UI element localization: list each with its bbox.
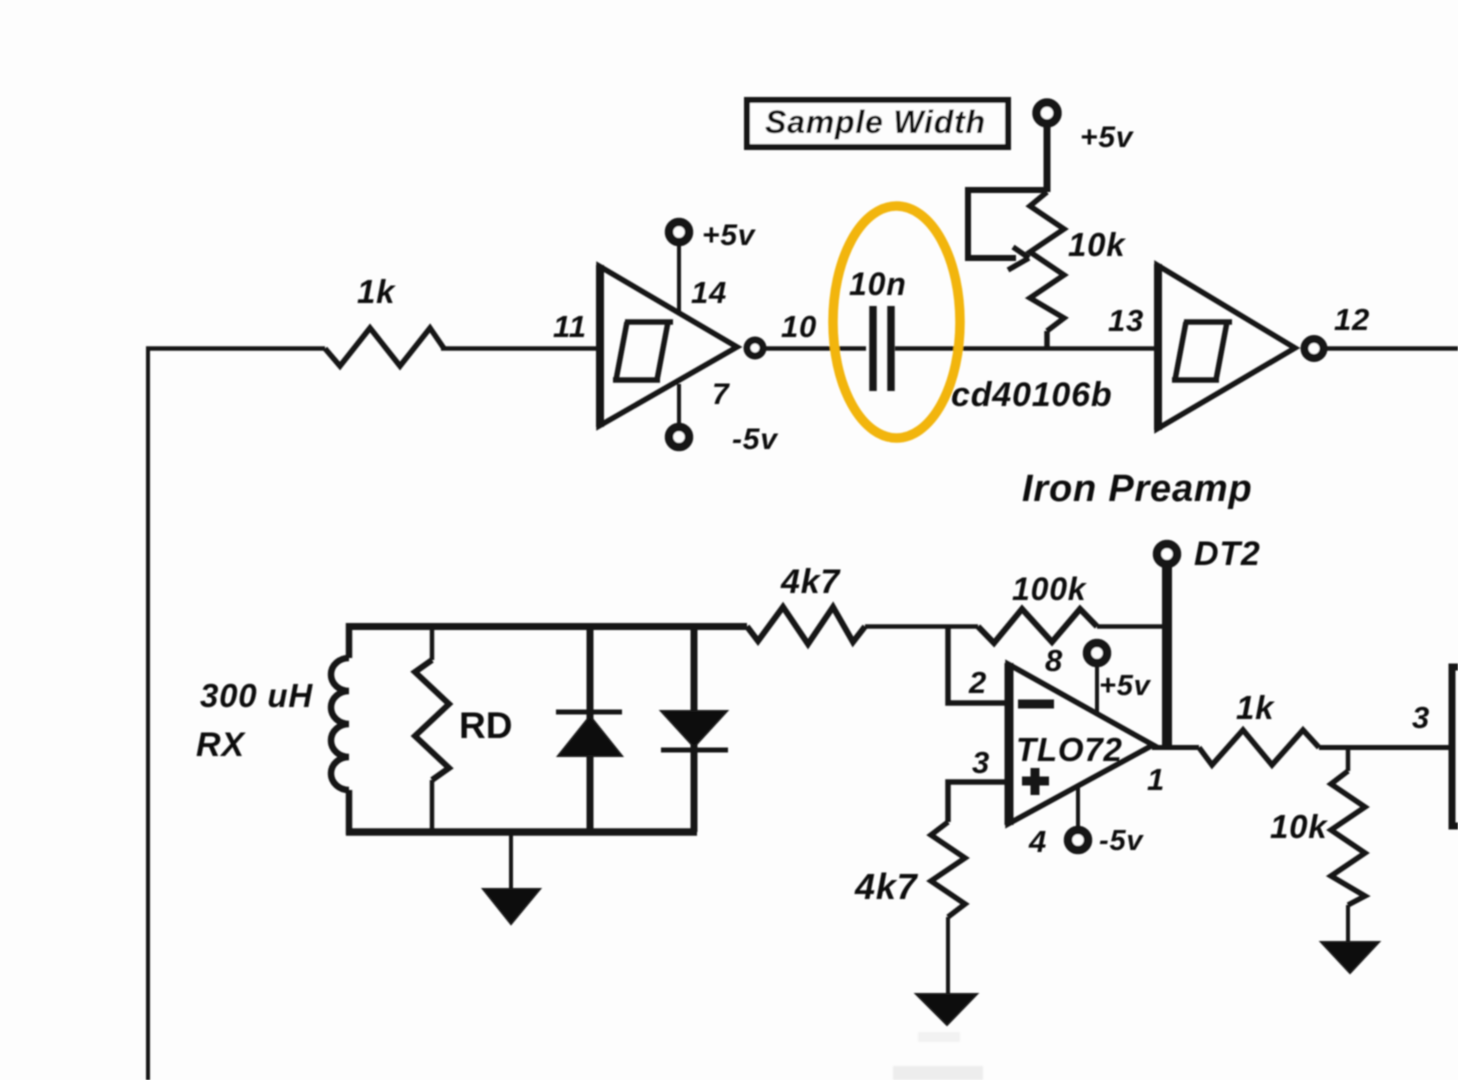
svg-text:14: 14	[691, 275, 727, 310]
svg-text:4: 4	[1028, 824, 1047, 859]
svg-text:TLO72: TLO72	[1016, 731, 1123, 768]
inductor 300uH RX coil	[331, 623, 349, 835]
capacitor 10n	[873, 306, 891, 391]
svg-text:2: 2	[968, 665, 987, 700]
svg-text:10k: 10k	[1270, 808, 1328, 845]
ground (10k)	[1321, 942, 1379, 973]
ground (4k7)	[916, 994, 977, 1025]
coil box bottom rail	[346, 828, 697, 836]
potentiometer 10k	[1030, 127, 1064, 350]
ground (coil box)	[483, 833, 540, 924]
highlight ellipse (yellow)	[833, 206, 960, 438]
wire DT2 bar vertical	[1162, 567, 1172, 748]
faint cut-off text remnant (bottom)	[893, 1032, 983, 1080]
svg-text:Iron Preamp: Iron Preamp	[1022, 468, 1253, 510]
hysteresis glyph U1a	[613, 322, 673, 380]
wire 100k to DT2 bar	[1097, 624, 1165, 629]
pin 4 -5v terminal	[1068, 786, 1088, 850]
svg-text:RX: RX	[196, 726, 246, 764]
DT2 terminal	[1157, 544, 1177, 564]
right edge box partial	[1452, 667, 1458, 826]
svg-text:1: 1	[1147, 762, 1165, 797]
Sample Width box	[747, 100, 1008, 147]
wire U1a output to capacitor	[764, 346, 866, 351]
wire 1k to right box	[1319, 745, 1452, 750]
wire U1b output to right edge	[1324, 346, 1458, 351]
resistor 10k (to ground)	[1331, 748, 1365, 944]
svg-text:+5v: +5v	[1080, 121, 1135, 154]
schmitt inverter U1a (cd40106b)	[599, 265, 737, 427]
wire top-left horizontal to R 1k	[146, 346, 325, 351]
svg-text:3: 3	[1412, 700, 1430, 735]
svg-text:1k: 1k	[357, 273, 396, 310]
resistor 100k feedback	[978, 609, 1097, 643]
plus input mark	[1022, 768, 1049, 795]
diode D1 (pointing up)	[556, 626, 622, 832]
svg-text:8: 8	[1045, 643, 1063, 678]
wire 4k7 to node and 100k	[865, 624, 978, 629]
svg-text:1k: 1k	[1236, 689, 1275, 726]
svg-text:10k: 10k	[1068, 226, 1126, 263]
svg-text:4k7: 4k7	[854, 866, 919, 907]
resistor 4k7 (vertical)	[931, 822, 965, 995]
svg-text:cd40106b: cd40106b	[951, 376, 1112, 414]
output bubble U1b	[1305, 339, 1324, 358]
svg-text:-5v: -5v	[1099, 825, 1144, 857]
pin 14 +5v terminal	[669, 222, 689, 312]
svg-text:100k: 100k	[1012, 571, 1088, 607]
svg-text:+5v: +5v	[702, 219, 757, 252]
wire pin3 to 4k7 vertical	[948, 782, 1009, 822]
svg-text:+5v: +5v	[1099, 670, 1152, 702]
+5v terminal (pot top)	[1037, 103, 1058, 124]
pin 8 +5v terminal	[1087, 643, 1107, 712]
resistor 1k (top)	[325, 328, 444, 366]
wire left vertical bus	[146, 349, 150, 1080]
svg-text:11: 11	[553, 309, 587, 344]
svg-text:12: 12	[1334, 302, 1370, 337]
schmitt inverter U1b (cd40106b)	[1157, 264, 1295, 430]
svg-text:RD: RD	[459, 705, 512, 746]
diode D2 (pointing down)	[661, 626, 728, 832]
wire node to pin2	[948, 627, 1009, 704]
wire op-amp output to 1k	[1152, 745, 1199, 750]
wire R1k to inverter U1a input	[441, 346, 599, 351]
svg-text:10: 10	[781, 309, 817, 344]
svg-text:7: 7	[712, 378, 730, 411]
svg-text:10n: 10n	[849, 266, 907, 302]
svg-text:Sample Width: Sample Width	[765, 104, 986, 140]
svg-text:3: 3	[972, 745, 990, 780]
output bubble U1a	[747, 340, 763, 356]
svg-text:13: 13	[1108, 303, 1144, 338]
minus input mark	[1018, 700, 1054, 709]
op-amp U2 TLO72	[1008, 663, 1153, 825]
coil box top rail	[346, 623, 747, 630]
wire capacitor to pot node and U1b input	[895, 346, 1156, 351]
resistor 1k (output)	[1199, 730, 1319, 765]
pot wiper arrow	[968, 190, 1047, 270]
svg-text:4k7: 4k7	[780, 563, 841, 601]
svg-text:300 uH: 300 uH	[200, 677, 313, 714]
svg-text:-5v: -5v	[732, 423, 779, 456]
resistor RD	[415, 626, 449, 832]
resistor 4k7 (horizontal)	[747, 607, 865, 644]
hysteresis glyph U1b	[1172, 322, 1232, 380]
pin 7 -5v terminal	[669, 384, 689, 447]
svg-text:DT2: DT2	[1194, 535, 1261, 573]
